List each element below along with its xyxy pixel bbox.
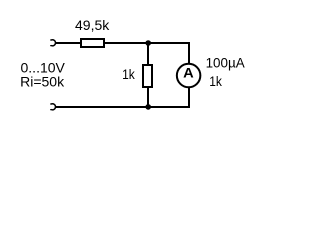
resistor R2 1k (vertical) — [143, 65, 152, 87]
wire (bottom wire, corner to lower terminal) — [56, 106, 190, 108]
svg-text:100µA: 100µA — [206, 55, 246, 71]
terminal J2 (lower input, open circle) — [50, 104, 55, 110]
wire (ammeter bottom down to bottom-right corner) — [188, 88, 190, 108]
wire (resistor R1 to top-right corner) — [105, 42, 190, 44]
wire (upper terminal to resistor R1) — [56, 42, 81, 44]
svg-text:Ri=50k: Ri=50k — [20, 74, 65, 90]
wire (top-right corner down to ammeter) — [188, 42, 190, 64]
wire (junction down to resistor R2) — [147, 43, 149, 65]
wire (resistor R2 to bottom junction) — [147, 86, 149, 107]
terminal J1 (upper input, open circle) — [50, 40, 55, 46]
svg-text:1k: 1k — [209, 73, 223, 89]
node (top junction dot) — [145, 40, 151, 46]
svg-text:1k: 1k — [122, 66, 136, 82]
svg-text:A: A — [183, 65, 194, 81]
resistor R1 49,5k (horizontal) — [81, 39, 104, 47]
svg-text:49,5k: 49,5k — [75, 17, 110, 33]
ammeter A1 — [177, 64, 201, 88]
node (bottom junction dot) — [145, 104, 151, 110]
